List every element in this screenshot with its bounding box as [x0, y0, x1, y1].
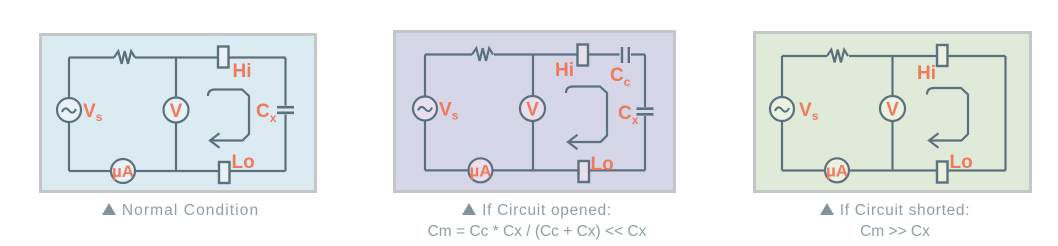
svg-text:V: V: [526, 100, 539, 121]
wire left lower: [781, 121, 783, 171]
svg-text:Hi: Hi: [233, 61, 252, 82]
terminal Hi: [218, 47, 229, 68]
svg-text:Hi: Hi: [917, 63, 936, 84]
wire left: [68, 58, 70, 99]
wire right upper: [644, 55, 646, 108]
svg-text:V: V: [886, 100, 899, 121]
source Vs: [413, 97, 437, 121]
svg-text:Cx: Cx: [256, 101, 277, 125]
svg-text:µA: µA: [826, 161, 848, 180]
wire right upper: [284, 58, 286, 106]
wire right: [1004, 56, 1006, 171]
voltmeter V: [880, 96, 905, 121]
svg-text:µA: µA: [469, 161, 491, 180]
resistor: [472, 48, 493, 61]
ammeter uA: [111, 159, 135, 183]
terminal Hi: [937, 45, 948, 66]
voltmeter V: [164, 98, 189, 123]
wire bottom: [782, 169, 1006, 171]
wire bottom: [425, 169, 645, 171]
current loop arrow: [208, 90, 249, 148]
terminal Lo: [937, 162, 948, 183]
capacitor Cx: [637, 109, 654, 115]
wire top: [69, 56, 286, 58]
ammeter uA: [469, 158, 493, 182]
circuit 3 schematic: [753, 31, 1032, 193]
svg-text:Hi: Hi: [555, 60, 574, 81]
svg-text:Lo: Lo: [950, 152, 973, 173]
current loop arrow: [566, 87, 607, 150]
terminal Lo: [579, 161, 590, 182]
svg-text:Cx: Cx: [618, 103, 639, 127]
wire left lower: [68, 122, 70, 171]
capacitor Cx: [277, 107, 294, 113]
svg-text:Cc: Cc: [610, 65, 631, 89]
terminal Lo: [219, 162, 230, 183]
wire top: [782, 55, 1006, 57]
wire left lower: [424, 121, 426, 171]
source Vs: [770, 97, 794, 121]
wire left: [781, 56, 783, 97]
svg-text:µA: µA: [112, 162, 134, 181]
panel 2 background (If Circuit opened): [393, 30, 676, 193]
wire middle: [891, 56, 893, 171]
terminal Hi: [578, 45, 589, 66]
wire bottom: [69, 170, 286, 172]
panel 3 background (If Circuit shorted): [753, 31, 1032, 193]
current loop arrow: [927, 88, 968, 148]
caption 1: [42, 200, 320, 221]
circuit 1 schematic: [39, 33, 317, 193]
wire middle: [532, 55, 534, 171]
resistor: [827, 50, 848, 63]
wire right lower: [644, 116, 646, 170]
capacitor Cc: [622, 47, 629, 63]
caption 3: [756, 200, 1035, 242]
svg-text:Vs: Vs: [799, 100, 819, 123]
wire right lower: [284, 115, 286, 172]
svg-text:Lo: Lo: [591, 154, 614, 175]
circuit 2 schematic: [393, 30, 676, 193]
source Vs: [57, 98, 81, 122]
wire top: [425, 53, 645, 55]
svg-text:Vs: Vs: [83, 101, 103, 124]
svg-text:V: V: [170, 101, 183, 122]
voltmeter V: [520, 96, 545, 121]
caption 2 line 1: [396, 200, 679, 242]
ammeter uA: [825, 158, 849, 182]
wire middle: [175, 58, 177, 172]
resistor: [114, 51, 135, 64]
panel 1 background (Normal Condition): [39, 33, 317, 193]
svg-text:Lo: Lo: [232, 152, 255, 173]
wire left: [424, 55, 426, 97]
svg-text:Vs: Vs: [439, 100, 459, 123]
